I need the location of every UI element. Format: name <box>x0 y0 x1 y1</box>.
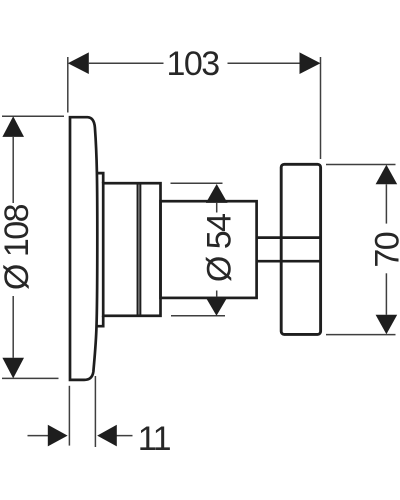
svg-text:11: 11 <box>138 420 171 458</box>
dim Ø54: bottom arrow <box>206 297 228 315</box>
dim Ø108: bottom arrow <box>2 358 24 379</box>
valve body (part B) <box>161 201 257 298</box>
dim 70: line upper segment <box>385 184 387 223</box>
stem upper line <box>257 236 321 239</box>
dim 103: line left segment <box>89 62 164 64</box>
svg-text:Ø 108: Ø 108 <box>0 204 36 290</box>
sleeve seam line 2 <box>139 185 141 315</box>
dim Ø108: top arrow <box>2 116 24 137</box>
dim 103: right extension line <box>320 57 322 159</box>
svg-text:Ø 54: Ø 54 <box>201 214 239 282</box>
dim 11: right arrow <box>97 425 117 447</box>
dim Ø54: line lower segment <box>216 291 218 298</box>
dim Ø108: bottom extension line <box>2 377 59 379</box>
dim 103: right arrow <box>300 52 321 74</box>
dim 103: left extension line <box>67 57 69 113</box>
dim Ø108: top extension line <box>2 115 64 117</box>
dim 11: right tail line <box>116 435 132 437</box>
collar step top <box>97 173 103 183</box>
stem lower line <box>257 260 321 263</box>
dim 11: right extension line <box>94 376 96 447</box>
dim 70: bottom extension line <box>326 334 396 336</box>
dim Ø54: bottom extension line <box>171 315 225 317</box>
dim Ø54: top arrow <box>206 184 228 203</box>
sleeve Ø54 (part A) <box>103 183 160 316</box>
dim Ø54: line upper segment <box>216 203 218 213</box>
svg-text:103: 103 <box>166 45 219 83</box>
dim Ø54: top extension line <box>171 182 223 184</box>
dim Ø108: line lower segment <box>12 296 14 358</box>
handle bar (70 tall) <box>281 164 320 334</box>
dim 11: left tail line <box>28 435 49 437</box>
svg-text:70: 70 <box>368 232 400 267</box>
dim Ø108: line upper segment <box>12 137 14 203</box>
dim 103: line right segment <box>228 62 300 64</box>
escutcheon plate (side view, Ø108) <box>70 117 97 380</box>
dim 11: left arrow <box>48 425 68 447</box>
sleeve seam line 1 <box>137 185 139 315</box>
dim 70: line lower segment <box>385 273 387 315</box>
dim 70: top extension line <box>326 164 396 166</box>
collar step bottom <box>97 316 104 326</box>
dim 70: bottom arrow <box>376 315 398 335</box>
dim 11: left extension line <box>68 386 70 446</box>
dim 103: left arrow <box>68 52 89 74</box>
dim 70: top arrow <box>376 165 398 185</box>
